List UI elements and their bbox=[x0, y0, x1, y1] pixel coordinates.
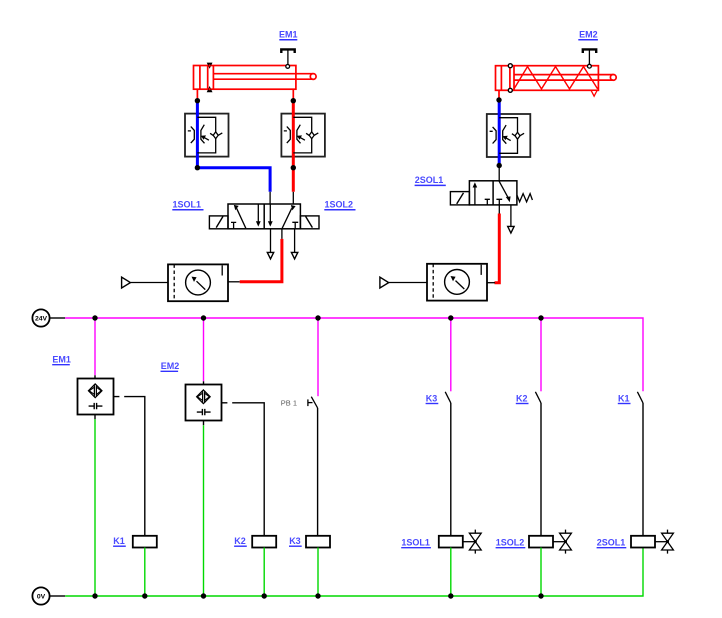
label EM1 (ladder) bbox=[52, 355, 71, 365]
flow control valve FV1 bbox=[185, 114, 229, 157]
sensor pickup circle on cylinder 1A bbox=[286, 65, 290, 69]
svg-text:K1: K1 bbox=[618, 393, 630, 403]
sensor EM2 box bbox=[186, 385, 222, 421]
port stubs under valve V2 bbox=[499, 205, 511, 226]
24V supply terminal bbox=[32, 309, 65, 326]
label K2 (contact) bbox=[516, 393, 529, 403]
wire below EM1 to 0V rail bbox=[94, 415, 96, 420]
piston position arrows on cylinder 1A bbox=[207, 63, 213, 93]
valve 5/2 V1 body bbox=[228, 204, 300, 229]
contact K1 (NO) on branch 6 bbox=[637, 392, 643, 403]
valve V1 left position internals bbox=[231, 204, 261, 229]
valve V2 left position internals bbox=[473, 182, 490, 205]
svg-text:PB 1: PB 1 bbox=[281, 398, 297, 407]
svg-text:K2: K2 bbox=[234, 536, 246, 546]
contact K2 (NO) bbox=[535, 392, 541, 403]
tube red supply to valve V1 bbox=[240, 239, 282, 282]
cylinder 1A (double-acting, EM1) bbox=[194, 66, 317, 101]
port stub cylinder 2A bbox=[498, 90, 500, 100]
label EM2 (top) bbox=[578, 29, 598, 40]
port stub above valve V2 bbox=[498, 166, 500, 181]
label K1 (contact) bbox=[618, 393, 631, 403]
flow control valve FV1 internals bbox=[188, 117, 223, 153]
wire below contact K3 bbox=[450, 403, 452, 536]
svg-text:EM1: EM1 bbox=[279, 29, 298, 39]
junction dots on tube to valve V2 bbox=[496, 97, 502, 168]
exhaust triangle V1 port 3 bbox=[291, 252, 297, 259]
label 1SOL1 (coil) bbox=[401, 538, 431, 548]
junction dots on 24V rail bbox=[92, 315, 543, 320]
solenoid coil 1SOL2 bbox=[529, 536, 553, 548]
return spring of V2 bbox=[517, 194, 533, 202]
solenoid valve indicator 2SOL1 bbox=[655, 530, 673, 554]
label 1SOL1 bbox=[172, 200, 203, 210]
tube blue from cylinder 1A left port to valve port 4 bbox=[197, 101, 270, 192]
junction dots at cylinder 1A ports bbox=[195, 98, 296, 170]
wire branch 5 from 24V rail bbox=[540, 318, 542, 391]
svg-text:2SOL1: 2SOL1 bbox=[415, 175, 444, 185]
wire from EM1 output to relay K1 bbox=[114, 397, 145, 536]
label K1 (coil) bbox=[113, 536, 126, 546]
cylinder 2A (single-acting spring return, EM2) bbox=[496, 66, 617, 91]
svg-text:K3: K3 bbox=[426, 393, 438, 403]
compressed air source triangle AU1 bbox=[122, 277, 131, 288]
svg-text:K2: K2 bbox=[516, 393, 528, 403]
label K3 (contact) bbox=[426, 393, 439, 403]
valve 3/2 V2 body bbox=[469, 181, 517, 205]
relay coil K1 bbox=[133, 536, 157, 548]
wire 0V rail bbox=[65, 548, 643, 597]
contact K3 (NO) bbox=[445, 392, 451, 403]
wire branch 4 from 24V rail bbox=[450, 318, 452, 391]
valve V1 right position internals bbox=[268, 204, 298, 229]
wire below K2 coil bbox=[263, 548, 265, 597]
tube red from cylinder 1A right port to valve port 2 bbox=[292, 101, 295, 192]
svg-text:1SOL2: 1SOL2 bbox=[325, 200, 354, 210]
exhaust triangle V1 port 5 bbox=[267, 252, 273, 259]
sensor pickup circle on cylinder 2A bbox=[588, 64, 592, 68]
wire below contact K1 bbox=[642, 403, 644, 536]
air service unit AU1 bbox=[131, 264, 240, 301]
solenoid coil 1SOL1 bbox=[439, 536, 463, 548]
solenoid valve indicator 1SOL1 bbox=[463, 530, 481, 554]
wire branch 1 from 24V rail bbox=[94, 318, 96, 375]
relay coil K3 bbox=[306, 536, 330, 548]
svg-text:1SOL1: 1SOL1 bbox=[401, 538, 430, 548]
sensor EM1 box bbox=[78, 379, 114, 415]
svg-text:24V: 24V bbox=[35, 316, 48, 323]
svg-text:K3: K3 bbox=[289, 536, 301, 546]
label K2 (coil) bbox=[234, 536, 247, 546]
wire below EM2 to 0V rail bbox=[203, 421, 205, 426]
valve V2 right position internals bbox=[496, 181, 510, 205]
wire branch 3 from 24V rail bbox=[317, 318, 319, 396]
wire below PB1 to relay K3 bbox=[317, 408, 319, 536]
air service unit AU2 bbox=[389, 264, 495, 301]
wire below contact K2 bbox=[540, 403, 542, 536]
svg-text:1SOL1: 1SOL1 bbox=[173, 200, 202, 210]
wire below K1 coil bbox=[144, 548, 146, 597]
svg-text:EM2: EM2 bbox=[161, 361, 180, 371]
svg-text:0V: 0V bbox=[37, 594, 46, 601]
wire from EM2 output to relay K2 bbox=[222, 403, 265, 536]
flow control valve FV2 bbox=[281, 114, 325, 157]
return spring of cylinder 2A bbox=[514, 67, 598, 89]
svg-text:EM1: EM1 bbox=[52, 355, 71, 365]
relay coil K2 bbox=[252, 536, 276, 548]
solenoid box right of V1 bbox=[300, 216, 319, 229]
label 2SOL1 (coil) bbox=[597, 538, 627, 548]
label K3 (coil) bbox=[289, 536, 302, 546]
sensor bracket EM1 bbox=[281, 49, 294, 64]
svg-text:EM2: EM2 bbox=[579, 29, 598, 39]
flow control valve FV3 internals bbox=[490, 118, 525, 154]
svg-text:1SOL2: 1SOL2 bbox=[496, 538, 525, 548]
tube red supply to valve V2 bbox=[495, 214, 500, 283]
wire 24V rail bbox=[65, 318, 643, 391]
wire below 1SOL2 coil bbox=[540, 548, 542, 597]
solenoid valve indicator 1SOL2 bbox=[553, 530, 571, 554]
wire below K3 coil bbox=[317, 548, 319, 597]
svg-text:K1: K1 bbox=[113, 536, 125, 546]
exhaust triangle V2 bbox=[508, 226, 514, 233]
pushbutton PB1 bbox=[308, 397, 318, 408]
solenoid coil 2SOL1 bbox=[631, 536, 655, 548]
0V supply terminal bbox=[32, 587, 65, 604]
flow control valve FV2 internals bbox=[284, 117, 319, 153]
solenoid box of V2 bbox=[450, 192, 469, 205]
breather triangle on cylinder 2A bbox=[591, 90, 597, 96]
label 1SOL2 bbox=[324, 200, 355, 210]
wire branch 2 from 24V rail bbox=[203, 318, 205, 381]
junction dots on 0V rail bbox=[92, 593, 543, 598]
label 1SOL2 (coil) bbox=[496, 538, 526, 548]
label EM1 (top) bbox=[279, 29, 298, 40]
tube blue from cylinder 2A to valve V2 bbox=[498, 100, 501, 166]
flow control valve FV3 bbox=[487, 114, 531, 157]
label 2SOL1 bbox=[415, 175, 446, 185]
sensor bracket EM2 bbox=[583, 49, 596, 64]
solenoid box left of V1 bbox=[209, 216, 228, 229]
wire below 1SOL1 coil bbox=[450, 548, 452, 597]
piston position circles on cylinder 2A bbox=[508, 64, 512, 93]
label EM2 (ladder) bbox=[161, 361, 180, 371]
compressed air source triangle AU2 bbox=[380, 277, 389, 288]
port stubs under valve V1 bbox=[270, 192, 295, 253]
svg-text:2SOL1: 2SOL1 bbox=[597, 538, 626, 548]
